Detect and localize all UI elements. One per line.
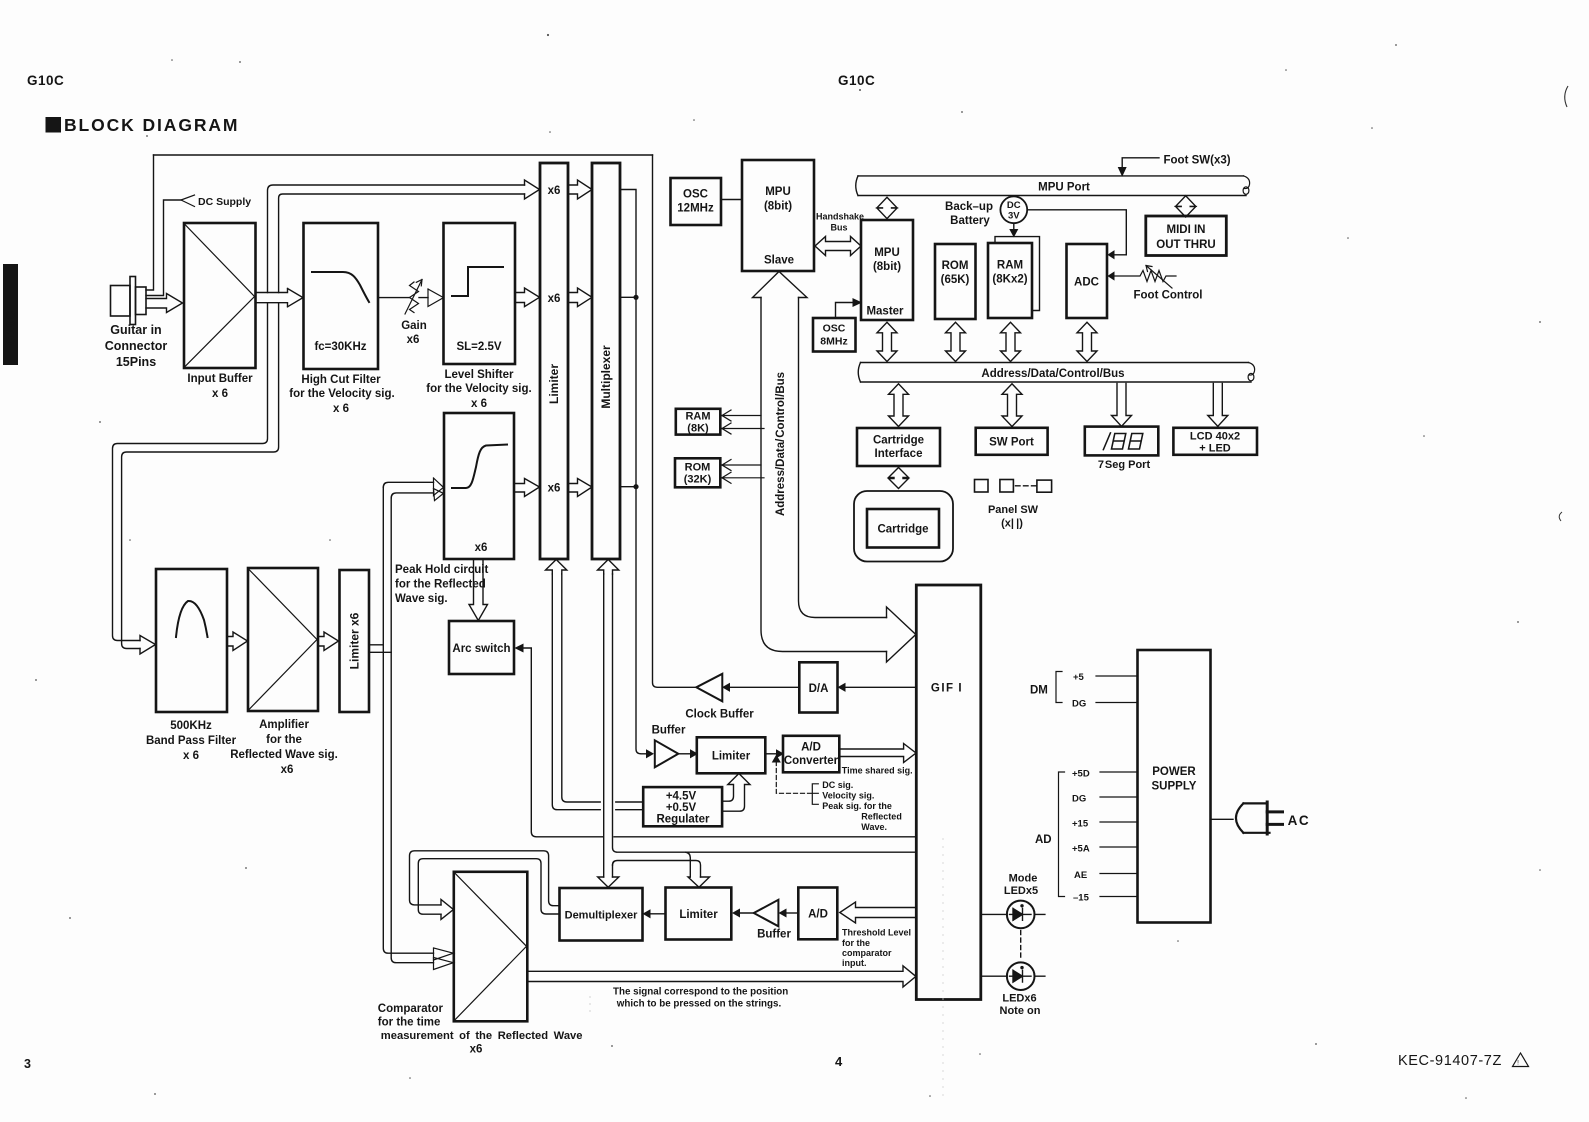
svg-text:+5D: +5D — [1072, 769, 1090, 780]
svg-text:AC: AC — [1288, 813, 1311, 828]
arc switch box — [449, 621, 514, 674]
svg-text:(8bit): (8bit) — [873, 261, 901, 273]
D/A box — [799, 662, 837, 712]
svg-text:Buffer: Buffer — [652, 725, 686, 737]
svg-text:+4.5V: +4.5V — [666, 791, 697, 803]
svg-text:DC: DC — [1007, 200, 1021, 211]
svg-text:Panel SW: Panel SW — [988, 504, 1039, 516]
wire bus to RAM 8K arrows — [722, 410, 761, 421]
double arrow ADC to bus — [1077, 322, 1097, 361]
svg-text:500KHz: 500KHz — [170, 720, 212, 732]
title block square — [46, 117, 62, 133]
svg-text:3V: 3V — [1008, 211, 1020, 222]
svg-text:Address/Data/ Control/Bus: Address/Data/ Control/Bus — [775, 372, 787, 516]
svg-text:Slave: Slave — [764, 255, 794, 267]
RAM 8K box — [676, 409, 721, 435]
cartridge outer rounded box — [854, 491, 953, 562]
multiplexer-demultiplexer shared bus pair P2 — [603, 574, 605, 877]
svg-text:for the Velocity sig.: for the Velocity sig. — [289, 388, 394, 400]
svg-text:Gain: Gain — [401, 320, 427, 332]
address data control bus pipe — [861, 363, 1252, 383]
wire hollow arrow connector to input buffer — [146, 294, 183, 313]
svg-text:8MHz: 8MHz — [820, 336, 847, 348]
level shifter box — [444, 223, 516, 364]
MPU port pipe — [858, 176, 1246, 196]
svg-text:Wave.: Wave. — [861, 822, 887, 832]
svg-text:x 6: x 6 — [333, 403, 349, 415]
double arrow port to MIDI — [1176, 196, 1196, 217]
svg-text:+15: +15 — [1072, 819, 1089, 830]
ROM 65K box — [935, 244, 976, 319]
double arrow bus to SW port — [1002, 384, 1022, 427]
wire OSC to MPU slave — [721, 199, 742, 201]
arrowhead down into demultiplexer — [598, 877, 619, 887]
panel SW squares — [975, 480, 989, 493]
wire limiter to multiplexer row 1 (hollow arrow) — [568, 180, 592, 199]
svg-text:15Pins: 15Pins — [116, 355, 156, 369]
wire HCF to gain — [378, 297, 428, 299]
wire GIF1 to arc switch control — [519, 648, 916, 837]
svg-text:ADC: ADC — [1074, 277, 1099, 289]
high cut filter box — [304, 223, 379, 369]
svg-text:for the Velocity sig.: for the Velocity sig. — [426, 383, 531, 395]
svg-text:Bus: Bus — [830, 223, 847, 233]
svg-text:DC sig.: DC sig. — [822, 780, 853, 790]
comparator output pair to GIF1 — [527, 966, 916, 987]
svg-text:DG: DG — [1072, 794, 1086, 805]
svg-text:input.: input. — [842, 958, 867, 968]
svg-text:comparator: comparator — [842, 948, 892, 958]
svg-text:G10C: G10C — [838, 73, 875, 88]
wire GIF1 to mode LED — [981, 913, 1045, 915]
svg-text:Input Buffer: Input Buffer — [187, 373, 253, 385]
svg-text:Battery: Battery — [950, 215, 990, 227]
svg-text:(8bit): (8bit) — [764, 201, 792, 213]
wire limiter to multiplexer row 3 (hollow arrow) — [568, 479, 592, 497]
svg-text:for the Reflected: for the Reflected — [395, 579, 486, 591]
note on LED D2 — [1007, 962, 1035, 990]
svg-text:(x| |): (x| |) — [1001, 518, 1023, 530]
junction dot row 2 — [633, 295, 638, 300]
wire bus branch up from input buffer output to top rails — [268, 185, 525, 293]
svg-text:Regulater: Regulater — [656, 813, 710, 825]
svg-text:The signal correspond to the: The signal correspond to the position — [613, 987, 788, 998]
svg-text:x6: x6 — [407, 334, 420, 346]
wire input buffer output to high cut filter (hollow arrow) — [256, 289, 304, 307]
svg-text:+ LED: + LED — [1199, 443, 1231, 455]
GIF1 box — [916, 585, 981, 1000]
svg-text:Peak sig. for the: Peak sig. for the — [822, 801, 892, 811]
down arrow bus to 7seg port — [1112, 384, 1132, 427]
svg-text:(8K): (8K) — [687, 423, 709, 435]
svg-text:for the time: for the time — [378, 1017, 441, 1029]
svg-text:Note on: Note on — [1000, 1005, 1041, 1017]
svg-text:Wave sig.: Wave sig. — [395, 593, 448, 605]
wire peak hold down to arc switch (hollow arrow) — [469, 559, 488, 621]
svg-text:3: 3 — [24, 1057, 31, 1071]
svg-text:for the: for the — [842, 938, 870, 948]
svg-text:DM: DM — [1030, 685, 1048, 697]
svg-text:Reflected Wave sig.: Reflected Wave sig. — [230, 749, 338, 761]
svg-text:x 6: x 6 — [212, 388, 228, 400]
svg-text:DG: DG — [1072, 699, 1086, 710]
svg-text:GIF I: GIF I — [931, 683, 963, 695]
svg-text:x6: x6 — [281, 764, 294, 776]
svg-text:Velocity sig.: Velocity sig. — [822, 790, 874, 800]
svg-text:LEDx6: LEDx6 — [1002, 993, 1036, 1005]
SW port box — [976, 428, 1048, 455]
wire arrowhead into band pass filter — [140, 636, 156, 655]
left edge black tab — [3, 264, 18, 365]
time shared signal pair to GIF1 — [839, 744, 916, 763]
svg-text:+0.5V: +0.5V — [666, 802, 697, 814]
arrowheads into comparator — [434, 948, 454, 960]
svg-text:Connector: Connector — [105, 339, 168, 353]
wire BPF to amplifier (hollow arrow) — [227, 632, 248, 651]
svg-text:Amplifier: Amplifier — [259, 719, 309, 731]
limiter (six channel) tall box — [540, 163, 568, 559]
MIDI IN OUT THRU box — [1146, 216, 1227, 256]
OSC 8MHz box — [813, 318, 856, 352]
svg-text:measurement of the Reflected W: measurement of the Reflected Wave — [381, 1030, 583, 1042]
svg-text:!: ! — [1517, 1060, 1519, 1067]
AC plug symbol — [1236, 803, 1270, 832]
svg-text:fc=30KHz: fc=30KHz — [314, 341, 366, 353]
wire vertical line to peak hold and comparator (outer) — [383, 487, 433, 953]
band pass hump curve — [176, 601, 208, 637]
warning triangle — [1513, 1053, 1529, 1067]
svg-text:MIDI IN: MIDI IN — [1167, 224, 1206, 236]
signal bracket — [812, 784, 818, 805]
A/D box — [798, 888, 837, 940]
wire OSC 8MHz to master — [836, 303, 856, 319]
wire vertical line to peak hold and comparator (inner) — [391, 498, 433, 963]
double arrow ROM65K to bus — [946, 322, 966, 361]
svg-text:4: 4 — [835, 1054, 843, 1069]
svg-text:POWER: POWER — [1152, 766, 1196, 778]
svg-text:Master: Master — [866, 306, 904, 318]
svg-text:MPU Port: MPU Port — [1038, 182, 1090, 194]
wire peak hold to limiter input 3 (hollow arrow) — [514, 479, 540, 497]
svg-text:MPU: MPU — [765, 186, 791, 198]
svg-text:Limiter x6: Limiter x6 — [348, 612, 362, 669]
handshake bus double arrow — [815, 237, 861, 256]
svg-text:RAM: RAM — [997, 260, 1023, 272]
faint fold dotted line — [942, 838, 944, 1096]
arrowhead into comparator upper input — [441, 900, 453, 920]
regulator box — [643, 787, 722, 826]
svg-text:Demultiplexer: Demultiplexer — [565, 910, 638, 922]
input buffer U1 box — [184, 223, 256, 368]
svg-text:OUT THRU: OUT THRU — [1156, 239, 1215, 251]
comparator triangle — [454, 873, 526, 1021]
svg-text:Peak Hold circuit: Peak Hold circuit — [395, 564, 488, 576]
500KHz band pass filter box — [156, 569, 227, 712]
svg-text:Level Shifter: Level Shifter — [444, 369, 514, 381]
svg-text:Limiter: Limiter — [679, 909, 718, 921]
dashed link between LEDs — [1020, 931, 1022, 959]
svg-text:x6: x6 — [548, 293, 561, 305]
OSC 12MHz box — [671, 178, 722, 225]
wire clock line from top rail down to clock buffer — [653, 155, 696, 687]
svg-text:(65K): (65K) — [941, 274, 970, 286]
svg-text:D/A: D/A — [809, 683, 829, 695]
top rail wire (clock feedback) — [154, 154, 653, 156]
wire battery to ADC — [1027, 210, 1126, 255]
svg-text:x 6: x 6 — [471, 398, 487, 410]
peak hold circuit box — [444, 413, 514, 559]
arrowhead down into bottom limiter — [688, 877, 710, 887]
double arrow port to master — [877, 197, 897, 218]
scan speckles — [547, 34, 549, 36]
wire battery down to RAM — [1013, 223, 1015, 231]
double arrow master to bus — [877, 322, 897, 361]
svg-text:SW Port: SW Port — [989, 437, 1034, 449]
wire connector pin to DC supply — [146, 200, 181, 296]
svg-text:High Cut Filter: High Cut Filter — [301, 374, 381, 386]
svg-text:OSC: OSC — [823, 323, 846, 335]
svg-text:Threshold Level: Threshold Level — [842, 928, 911, 938]
svg-text:Time shared sig.: Time shared sig. — [842, 766, 913, 776]
svg-text:Interface: Interface — [875, 448, 923, 460]
svg-text:Handshake: Handshake — [816, 212, 864, 222]
wide address bus left line — [761, 298, 887, 652]
svg-text:MPU: MPU — [874, 247, 900, 259]
wire multiplexer exit row 3 — [620, 486, 636, 488]
svg-text:Limiter: Limiter — [547, 364, 561, 404]
DC 3V battery circle — [1000, 196, 1027, 223]
svg-text:x6: x6 — [475, 542, 488, 554]
foot control potentiometer — [1112, 271, 1176, 282]
wide address bus right line — [799, 298, 887, 618]
wire arrowhead into level shifter — [428, 289, 444, 307]
svg-text:+5A: +5A — [1072, 844, 1090, 855]
svg-text:(8Kx2): (8Kx2) — [992, 274, 1027, 286]
svg-text:A/D: A/D — [801, 742, 821, 754]
wire level shifter to limiter (hollow arrow) — [515, 288, 540, 307]
hollow arrow up into limiter bottom (from regulator) — [546, 560, 567, 575]
svg-text:LEDx5: LEDx5 — [1004, 885, 1038, 897]
buffer triangle — [655, 740, 679, 767]
svg-text:12MHz: 12MHz — [677, 203, 714, 215]
svg-text:DC Supply: DC Supply — [198, 196, 251, 208]
ROM 32K box — [675, 458, 720, 487]
comparator box — [454, 872, 528, 1022]
svg-text:Clock Buffer: Clock Buffer — [685, 709, 754, 721]
svg-text:Buffer: Buffer — [757, 929, 791, 941]
wire power supply to AC plug — [1211, 818, 1234, 820]
mid limiter box — [697, 737, 766, 773]
svg-text:SUPPLY: SUPPLY — [1152, 781, 1197, 793]
regulator supply bus pair P1 — [552, 574, 643, 810]
svg-text:Foot SW(x3): Foot SW(x3) — [1164, 155, 1231, 167]
ADC box — [1067, 244, 1108, 318]
svg-text:Cartridge: Cartridge — [873, 435, 924, 447]
wire buffer to mid limiter — [678, 753, 691, 755]
cartridge interface box — [857, 428, 940, 466]
svg-text:Guitar in: Guitar in — [110, 323, 161, 337]
branch down line into bottom limiter (left line) — [686, 852, 691, 877]
gain variable resistor VR1 — [410, 282, 419, 313]
level shifter step curve — [452, 267, 503, 296]
wide address bus slave arrowhead — [753, 272, 808, 298]
svg-text:7 Seg Port: 7 Seg Port — [1098, 459, 1151, 471]
svg-text:Arc switch: Arc switch — [452, 643, 510, 655]
wire GIF1 to D/A — [843, 686, 916, 688]
bottom limiter box — [666, 888, 732, 940]
MPU slave box — [742, 160, 814, 271]
AD bracket — [1059, 772, 1065, 897]
svg-text:x 6: x 6 — [183, 750, 199, 762]
wire arrowhead into limiter input 1 — [525, 180, 540, 199]
svg-text:ROM: ROM — [685, 462, 711, 474]
wire limiter to multiplexer row 2 (hollow arrow) — [568, 288, 592, 307]
svg-text:RAM: RAM — [685, 411, 710, 423]
double arrow cartridge interface to cartridge — [889, 468, 909, 489]
limiter x6 box — [340, 570, 370, 712]
svg-text:Cartridge: Cartridge — [877, 524, 928, 536]
dashed link between panel switches — [1016, 485, 1037, 487]
clock buffer triangle — [696, 674, 722, 702]
double arrow RAM to bus — [1001, 322, 1021, 361]
DM bracket — [1056, 672, 1062, 703]
svg-text:Address/Data/Control/Bus: Address/Data/Control/Bus — [981, 368, 1124, 380]
svg-text:A/D: A/D — [808, 909, 828, 921]
wire connector pin to top rail — [146, 155, 154, 290]
svg-text:AE: AE — [1074, 870, 1087, 881]
svg-text:G10C: G10C — [4, 310, 18, 345]
MPU master box — [861, 220, 913, 320]
svg-text:Comparator: Comparator — [378, 1003, 444, 1015]
7seg digits 188 — [1103, 433, 1143, 450]
regulator output to mid limiter (hollow elbow arrow) — [722, 774, 750, 812]
amplifier triangle — [249, 569, 318, 710]
svg-text:KEC-91407-7Z: KEC-91407-7Z — [1398, 1053, 1502, 1069]
svg-text:x6: x6 — [548, 483, 561, 495]
svg-text:OSC: OSC — [683, 189, 708, 201]
buffer triangle (threshold) — [754, 900, 779, 927]
peak hold S curve — [452, 445, 507, 489]
wire multiplexer exit row 2 — [620, 296, 636, 298]
svg-text:–15: –15 — [1073, 893, 1090, 904]
wire amplifier to limiter x6 (hollow arrow) — [318, 632, 339, 651]
double arrow bus to cartridge interface — [889, 384, 909, 427]
svg-text:Back–up: Back–up — [945, 201, 993, 213]
wire mid limiter to A/D converter — [765, 753, 777, 755]
down arrow bus to LCD — [1208, 384, 1228, 427]
svg-text:Reflected: Reflected — [861, 811, 902, 821]
7seg port box — [1085, 427, 1159, 456]
LCD 40x2 + LED box — [1173, 428, 1257, 455]
dashed signal tap at A/D converter input — [776, 762, 812, 794]
arrowheads into peak hold — [434, 478, 444, 496]
svg-text:x6: x6 — [548, 185, 561, 197]
hollow arrow up into multiplexer bottom — [598, 560, 619, 575]
junction dot row 3 — [633, 484, 638, 489]
A/D converter box — [783, 736, 839, 773]
svg-text:x6: x6 — [470, 1044, 483, 1056]
wire limiter x6 outputs to vertical pair — [369, 645, 391, 653]
svg-text:LCD 40x2: LCD 40x2 — [1190, 431, 1240, 443]
foot SW wire — [1122, 158, 1159, 170]
svg-text:Foot Control: Foot Control — [1134, 290, 1203, 302]
threshold level pair GIF1 to A/D — [840, 902, 917, 923]
wire into buffer triangle arrowhead — [647, 750, 654, 757]
wire bus to ROM 32K arrows — [722, 460, 761, 471]
wire GIF1 to note LED — [981, 975, 1045, 977]
svg-text:for the: for the — [266, 734, 302, 746]
svg-text:ROM: ROM — [942, 260, 969, 272]
RAM 8Kx2 shadow box — [995, 237, 1040, 311]
RAM 8Kx2 box — [988, 243, 1032, 318]
guitar connector J1 — [111, 277, 147, 325]
DC Supply arrow symbol — [181, 195, 195, 207]
wide address bus arrowhead into GIF1 — [887, 607, 916, 662]
wire limiter to demultiplexer — [649, 913, 666, 915]
mode LED D1 — [1007, 901, 1035, 929]
page curl mark right middle — [1559, 512, 1562, 521]
page curl mark top right — [1565, 86, 1568, 107]
svg-text:Band Pass Filter: Band Pass Filter — [146, 735, 237, 747]
svg-text:BLOCK DIAGRAM: BLOCK DIAGRAM — [64, 115, 239, 135]
wire buffer to limiter — [739, 912, 754, 914]
wire D/A to clock buffer — [728, 686, 799, 688]
cartridge inner box — [867, 509, 939, 548]
svg-text:which to be pressed on the s: which to be pressed on the strings. — [616, 999, 782, 1010]
svg-text:Converter: Converter — [784, 755, 839, 767]
wire A/D to buffer — [785, 912, 798, 914]
demultiplexer to comparator hollow pair — [410, 851, 560, 906]
svg-text:+5: +5 — [1073, 672, 1085, 683]
wire bus down to band pass filter — [113, 303, 268, 641]
svg-text:Limiter: Limiter — [712, 751, 751, 763]
svg-text:G10C: G10C — [27, 73, 64, 88]
svg-text:SL=2.5V: SL=2.5V — [456, 341, 501, 353]
svg-text:(32K): (32K) — [684, 474, 712, 486]
svg-text:Multiplexer: Multiplexer — [599, 345, 613, 409]
demultiplexer box — [560, 888, 643, 941]
svg-text:Mode: Mode — [1009, 873, 1038, 885]
wire multiplexer output line down — [620, 190, 650, 754]
input buffer triangle — [185, 224, 255, 367]
power supply box — [1138, 650, 1211, 923]
high cut filter response curve — [312, 272, 369, 302]
multiplexer tall box — [592, 163, 620, 559]
amplifier box — [248, 568, 318, 711]
svg-text:AD: AD — [1035, 834, 1052, 846]
